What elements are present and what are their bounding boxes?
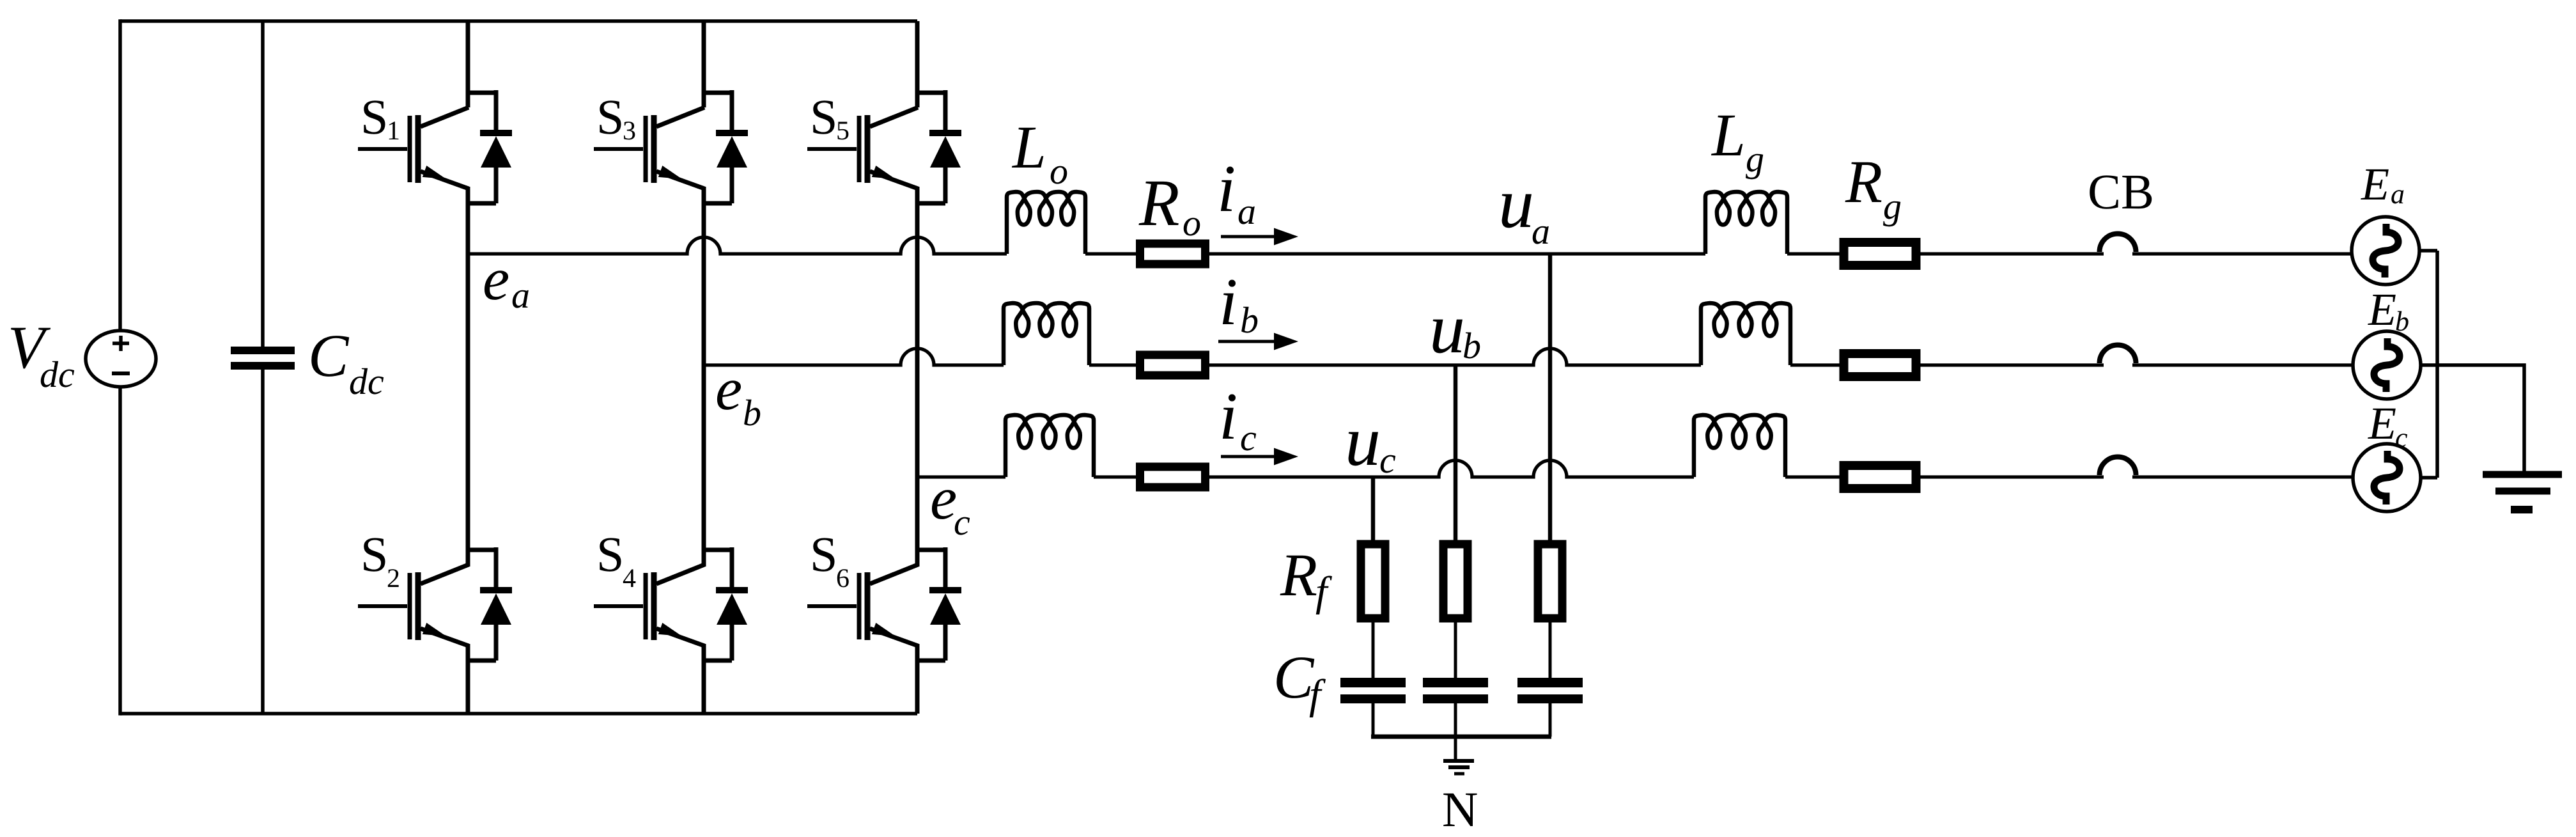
label S6 — [813, 538, 849, 587]
wire Lg to Rg phase c — [1785, 475, 1840, 478]
wire phase a: Ro to node ua to Lg — [1209, 252, 1705, 255]
label Eb — [2368, 295, 2409, 331]
wire neutral stub — [1454, 737, 1457, 760]
ground at N — [1443, 761, 1474, 774]
wire Cf to neutral bus phase c — [1372, 703, 1375, 737]
diode anti-parallel with S2 — [468, 547, 512, 661]
label Vdc — [11, 328, 74, 387]
wire node ub branch down — [1454, 365, 1458, 541]
wire leg midsection — [702, 187, 706, 567]
wire Lg to Rg phase b — [1790, 363, 1840, 366]
label S2 — [364, 538, 398, 587]
label Lo — [1012, 128, 1067, 184]
circuit breaker CB phase c — [2100, 457, 2136, 476]
wire leg collector feed (S1) — [466, 21, 470, 107]
resistor Rg phase b — [1844, 354, 1916, 377]
wire Eb to ground — [2421, 365, 2524, 471]
label CB — [2090, 175, 2152, 208]
wire leg midsection — [466, 187, 470, 567]
label Rf — [1280, 556, 1331, 614]
wire Lo to Ro phase b — [1089, 363, 1137, 366]
wire Vdc positive lead — [118, 19, 122, 331]
wire top DC bus — [120, 19, 917, 23]
capacitor Cf phase c — [1340, 678, 1406, 703]
current arrow ic — [1221, 448, 1298, 465]
transistor S3 (IGBT) — [594, 107, 704, 189]
wire Rg to CB phase b — [1920, 363, 2104, 366]
label ea — [485, 270, 529, 308]
wire Ea to neutral bus — [2419, 249, 2437, 253]
wire leg midsection — [915, 187, 920, 567]
ac source Ec — [2353, 444, 2421, 512]
label S4 — [600, 538, 635, 587]
diode anti-parallel with S3 — [704, 90, 748, 203]
wire Cdc bottom lead — [261, 370, 265, 714]
wire leg collector feed (S5) — [915, 21, 920, 107]
diode anti-parallel with S1 — [468, 90, 512, 203]
voltage source Vdc — [86, 331, 156, 387]
label ub — [1433, 320, 1480, 359]
transistor S2 (IGBT) — [358, 565, 469, 646]
wire Ec to neutral bus — [2421, 476, 2437, 480]
diode anti-parallel with S4 — [704, 547, 748, 661]
inductor Lo phase b — [1004, 303, 1089, 365]
wire phase c: Ro to node uc, hops over ub and ua branches, to Lg — [1209, 460, 1694, 477]
label S3 — [600, 100, 635, 139]
wire CB to grid source phase b — [2132, 363, 2352, 366]
resistor Rg phase c — [1844, 465, 1916, 489]
wire CB to grid source phase c — [2132, 475, 2352, 478]
wire phase a: node ea to Lo (hops over legs b,c) — [468, 237, 1007, 254]
resistor Rf phase c — [1361, 544, 1385, 618]
label ia — [1221, 166, 1255, 224]
current arrow ia — [1221, 228, 1298, 246]
transistor S6 (IGBT) — [807, 565, 918, 646]
label eb — [717, 380, 760, 425]
wire phase c: node ec to Lo — [917, 475, 1005, 478]
label Rg — [1845, 162, 1900, 227]
wire Rg to CB phase a — [1920, 252, 2104, 255]
inductor Lo phase c — [1005, 415, 1094, 477]
circuit breaker CB phase b — [2100, 345, 2136, 364]
wire filter neutral bus — [1371, 735, 1551, 739]
resistor Ro phase c — [1140, 467, 1206, 487]
wire Cdc top lead — [261, 21, 265, 347]
wire node uc branch down — [1371, 477, 1376, 541]
label ec — [932, 490, 970, 535]
capacitor Cf phase a — [1517, 678, 1583, 703]
transistor S4 (IGBT) — [594, 565, 704, 646]
wire Rf to Cf phase b — [1454, 622, 1457, 678]
label S1 — [364, 100, 398, 139]
transistor S1 (IGBT) — [358, 107, 469, 189]
inductor Lg phase a — [1705, 192, 1787, 254]
wire Rf to Cf phase a — [1549, 622, 1552, 678]
capacitor Cdc — [231, 347, 295, 370]
resistor Ro phase a — [1140, 244, 1206, 264]
resistor Rf phase b — [1443, 544, 1468, 618]
inductor Lg phase c — [1694, 415, 1785, 477]
wire leg emitter to bus (S6) — [915, 644, 920, 714]
transistor S5 (IGBT) — [807, 107, 918, 189]
label uc — [1349, 432, 1396, 473]
ground (grid) — [2483, 474, 2562, 510]
label ua — [1502, 194, 1549, 244]
resistor Rf phase a — [1538, 544, 1562, 618]
inductor Lg phase b — [1701, 303, 1790, 365]
inductor Lo phase a — [1007, 192, 1085, 254]
label Ec — [2368, 409, 2407, 448]
diode anti-parallel with S6 — [917, 547, 961, 661]
wire Rf to Cf phase c — [1372, 622, 1375, 678]
ac source Eb — [2353, 331, 2421, 399]
wire Vdc negative lead — [118, 386, 122, 716]
capacitor Cf phase b — [1423, 678, 1488, 703]
wire CB to grid source phase a — [2132, 252, 2352, 255]
label Cdc — [311, 336, 384, 394]
wire Lo to Ro phase a — [1085, 252, 1137, 255]
label S5 — [813, 100, 848, 139]
label ic — [1223, 394, 1256, 450]
label Ro — [1138, 182, 1200, 236]
wire leg emitter to bus (S4) — [702, 644, 706, 714]
ac source Ea — [2352, 217, 2419, 285]
wire leg collector feed (S3) — [702, 21, 706, 107]
resistor Rg phase a — [1844, 242, 1916, 265]
wire Rg to CB phase c — [1920, 475, 2104, 478]
wire Lg to Rg phase a — [1787, 252, 1840, 255]
label Cf — [1276, 657, 1326, 717]
wire phase b: Ro to node ub, hop over ua branch, to Lg — [1209, 348, 1701, 365]
circuit breaker CB phase a — [2100, 234, 2136, 253]
label ib — [1223, 279, 1257, 332]
label Ea — [2361, 169, 2403, 204]
wire bottom DC bus — [120, 712, 917, 716]
wire Cf to neutral bus phase b — [1454, 703, 1457, 737]
current arrow ib — [1218, 333, 1298, 350]
label Lg — [1711, 116, 1763, 180]
wire phase b: node eb to Lo (hops over leg c) — [704, 348, 1004, 365]
resistor Ro phase b — [1140, 355, 1206, 375]
wire leg emitter to bus (S2) — [466, 644, 470, 714]
wire Lo to Ro phase c — [1094, 475, 1137, 478]
diode anti-parallel with S5 — [917, 90, 961, 203]
label N — [1443, 794, 1477, 826]
wire grid neutral bus — [2435, 251, 2439, 478]
wire Cf to neutral bus phase a — [1549, 703, 1552, 737]
wire node ua branch down — [1548, 254, 1553, 541]
